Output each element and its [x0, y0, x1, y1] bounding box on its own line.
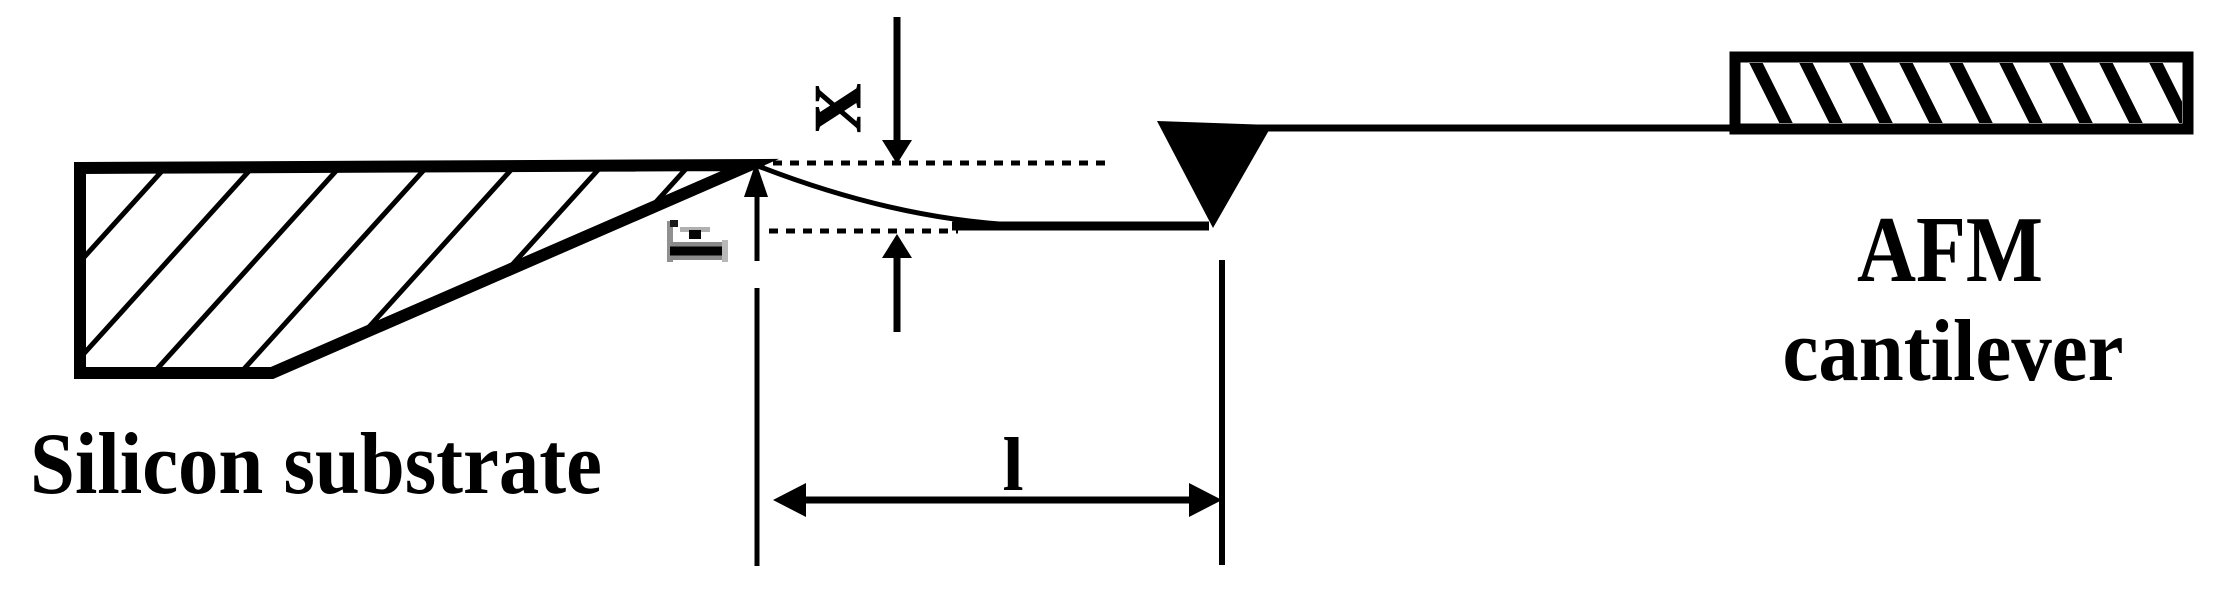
svg-text:AFM: AFM [1857, 198, 2043, 302]
svg-text:cantilever: cantilever [1783, 303, 2124, 400]
svg-text:Silicon substrate: Silicon substrate [30, 416, 602, 513]
svg-text:l: l [1002, 423, 1023, 507]
svg-text:x: x [774, 84, 882, 133]
